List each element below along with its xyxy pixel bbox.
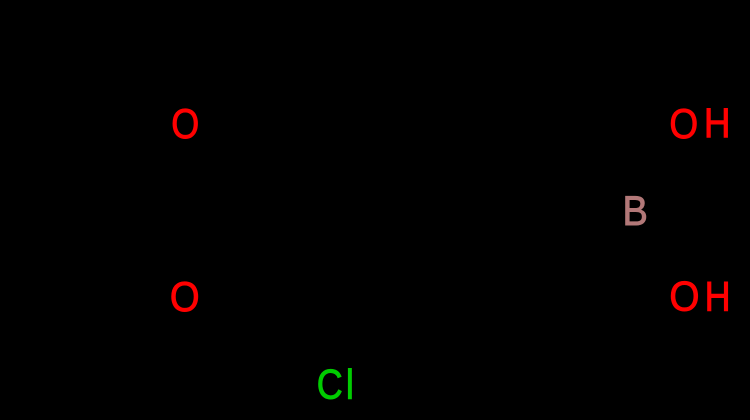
ring bond C2-C3 xyxy=(385,294,485,300)
double bond C=O carbonyl line 1 xyxy=(198,211,235,275)
svg-text:B: B xyxy=(622,189,647,235)
bond C2-Cl xyxy=(348,297,385,361)
ring bond C1-C2 xyxy=(335,211,385,298)
ring bond C6-C1 xyxy=(335,124,385,211)
svg-text:O: O xyxy=(170,275,200,321)
svg-text:H: H xyxy=(705,275,731,321)
ring bond C4-C5 xyxy=(485,124,535,211)
bond C carbonyl-ring C1 xyxy=(235,208,335,214)
ring double bond C6=C1 inner line xyxy=(352,142,388,204)
svg-text:C: C xyxy=(317,362,343,408)
svg-text:O: O xyxy=(171,102,199,148)
bond CH2-O ester xyxy=(135,36,172,100)
bond O ester-C carbonyl xyxy=(198,146,236,211)
bond CH3-CH2 (ethyl terminal) xyxy=(35,33,135,39)
bond B-OH top xyxy=(647,146,672,190)
svg-text:O: O xyxy=(669,274,699,319)
double bond C=O carbonyl line 2 xyxy=(207,216,244,280)
bond B-OH bottom xyxy=(647,231,672,274)
ring bond C3-C4 xyxy=(485,211,535,298)
svg-text:H: H xyxy=(704,102,731,147)
svg-text:l: l xyxy=(346,363,354,409)
bond C4-B boronic xyxy=(535,208,611,214)
ring double bond C4=C5 inner line xyxy=(483,142,519,204)
svg-text:O: O xyxy=(669,101,698,147)
ring bond C5-C6 xyxy=(385,121,485,127)
ring double bond C2=C3 inner line xyxy=(399,283,471,289)
